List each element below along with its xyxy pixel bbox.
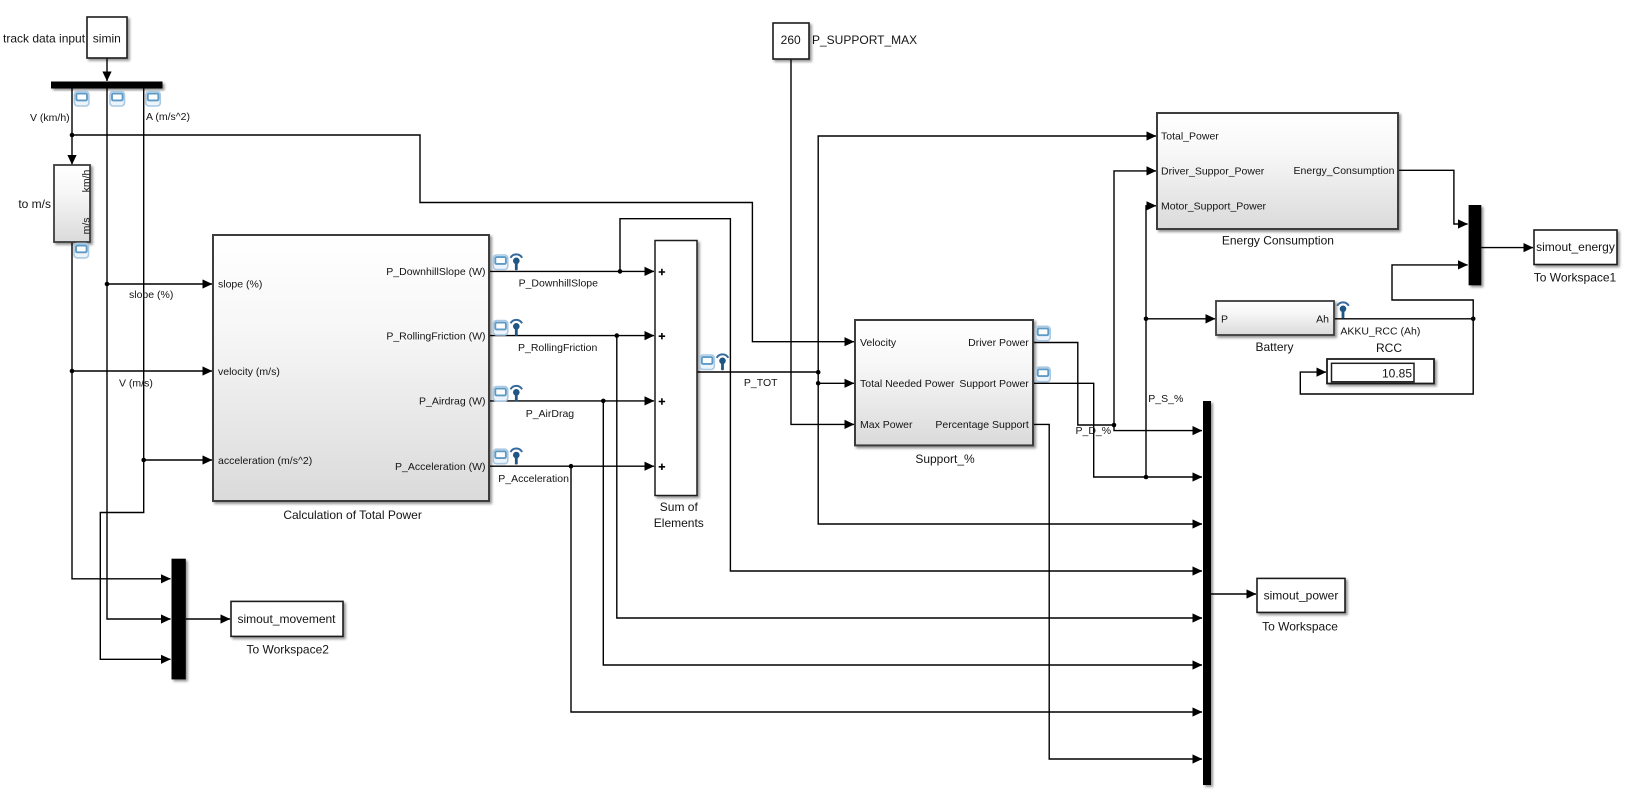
- svg-text:A (m/s^2): A (m/s^2): [146, 111, 190, 123]
- svg-text:To Workspace1: To Workspace1: [1534, 271, 1617, 285]
- svg-text:Driver_Suppor_Power: Driver_Suppor_Power: [1161, 166, 1265, 178]
- svg-text:Battery: Battery: [1255, 340, 1293, 354]
- svg-text:km/h: km/h: [81, 169, 93, 192]
- svg-text:Ah: Ah: [1316, 314, 1329, 326]
- svg-text:RCC: RCC: [1376, 341, 1402, 355]
- svg-text:to m/s: to m/s: [18, 197, 51, 211]
- svg-text:acceleration (m/s^2): acceleration (m/s^2): [218, 455, 312, 467]
- svg-text:P_AirDrag: P_AirDrag: [526, 408, 575, 420]
- svg-text:To Workspace: To Workspace: [1262, 619, 1338, 633]
- svg-text:P_DownhillSlope (W): P_DownhillSlope (W): [386, 266, 485, 278]
- svg-text:P_S_%: P_S_%: [1148, 393, 1183, 405]
- svg-text:Total_Power: Total_Power: [1161, 131, 1219, 143]
- svg-text:P_SUPPORT_MAX: P_SUPPORT_MAX: [812, 33, 917, 47]
- svg-text:Elements: Elements: [654, 516, 704, 530]
- svg-text:slope (%): slope (%): [218, 279, 262, 291]
- svg-text:simin: simin: [93, 32, 121, 46]
- svg-text:simout_energy: simout_energy: [1536, 240, 1615, 254]
- svg-text:AKKU_RCC (Ah): AKKU_RCC (Ah): [1340, 325, 1420, 337]
- svg-text:velocity (m/s): velocity (m/s): [218, 366, 280, 378]
- svg-text:P_DownhillSlope: P_DownhillSlope: [519, 277, 599, 289]
- svg-text:V (m/s): V (m/s): [119, 377, 153, 389]
- svg-text:Sum of: Sum of: [660, 500, 699, 514]
- svg-text:P: P: [1221, 314, 1228, 326]
- svg-text:P_Acceleration: P_Acceleration: [498, 473, 569, 485]
- svg-text:P_TOT: P_TOT: [744, 377, 778, 389]
- svg-text:Max Power: Max Power: [860, 419, 913, 431]
- svg-text:simout_movement: simout_movement: [237, 612, 336, 626]
- svg-text:10.85: 10.85: [1382, 366, 1412, 380]
- svg-text:Motor_Support_Power: Motor_Support_Power: [1161, 201, 1267, 213]
- svg-text:track data input: track data input: [3, 32, 86, 46]
- svg-text:Calculation of Total Power: Calculation of Total Power: [283, 508, 422, 522]
- svg-text:Support_%: Support_%: [915, 452, 975, 466]
- svg-text:260: 260: [781, 33, 801, 47]
- svg-text:Driver Power: Driver Power: [968, 337, 1029, 349]
- svg-text:Energy Consumption: Energy Consumption: [1222, 234, 1334, 248]
- svg-text:P_RollingFriction: P_RollingFriction: [518, 342, 598, 354]
- svg-text:V (km/h): V (km/h): [30, 112, 70, 124]
- svg-text:simout_power: simout_power: [1264, 589, 1339, 603]
- svg-text:P_RollingFriction (W): P_RollingFriction (W): [386, 330, 485, 342]
- svg-text:Energy_Consumption: Energy_Consumption: [1294, 165, 1395, 177]
- svg-text:P_Acceleration (W): P_Acceleration (W): [395, 461, 485, 473]
- svg-text:Total Needed Power: Total Needed Power: [860, 378, 955, 390]
- svg-text:Percentage Support: Percentage Support: [935, 419, 1028, 431]
- svg-text:Velocity: Velocity: [860, 337, 897, 349]
- svg-text:slope (%): slope (%): [129, 289, 173, 301]
- svg-text:To Workspace2: To Workspace2: [246, 643, 329, 657]
- svg-text:P_Airdrag (W): P_Airdrag (W): [419, 396, 486, 408]
- svg-text:P_D_%: P_D_%: [1076, 425, 1112, 437]
- svg-text:m/s: m/s: [81, 217, 93, 234]
- svg-text:Support Power: Support Power: [959, 378, 1029, 390]
